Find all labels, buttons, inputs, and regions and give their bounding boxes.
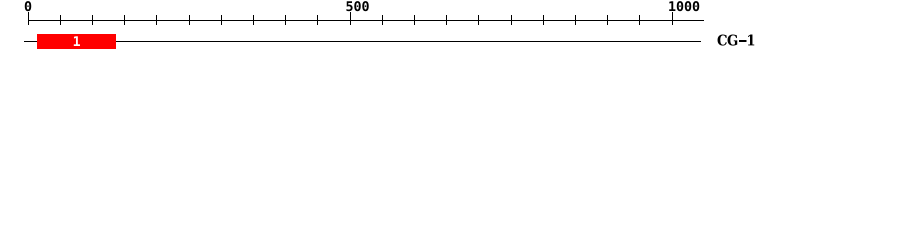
- repeat box label 1: [73, 36, 74, 37]
- minor tick 700: [478, 15, 479, 25]
- sequence name CG-1: G: [730, 34, 731, 35]
- minor tick 650: [446, 15, 447, 25]
- minor tick 850: [575, 15, 576, 25]
- minor tick 800: [543, 15, 544, 25]
- ruler axis line: [28, 20, 704, 21]
- minor tick 300: [221, 15, 222, 25]
- minor tick 50: [60, 15, 61, 25]
- minor tick 950: [639, 15, 640, 25]
- major tick 1000: [672, 12, 673, 25]
- minor tick 200: [156, 15, 157, 25]
- sequence name CG-1: dash: [739, 40, 747, 42]
- minor tick 100: [92, 15, 93, 25]
- minor tick 400: [285, 15, 286, 25]
- ruler label 1000: [669, 1, 670, 2]
- minor tick 150: [124, 15, 125, 25]
- ruler label 500: [346, 1, 347, 2]
- ruler label 0: [25, 1, 26, 2]
- minor tick 600: [414, 15, 415, 25]
- minor tick 550: [382, 15, 383, 25]
- major tick 0: [28, 12, 29, 25]
- minor tick 450: [317, 15, 318, 25]
- sequence line: [24, 41, 701, 42]
- sequence name CG-1: C: [720, 34, 721, 35]
- sequence name CG-1: 1: [749, 34, 750, 35]
- major tick 500: [350, 12, 351, 25]
- minor tick 750: [511, 15, 512, 25]
- minor tick 250: [189, 15, 190, 25]
- minor tick 900: [607, 15, 608, 25]
- repeat box 1: [37, 34, 116, 49]
- background: [0, 0, 900, 58]
- minor tick 350: [253, 15, 254, 25]
